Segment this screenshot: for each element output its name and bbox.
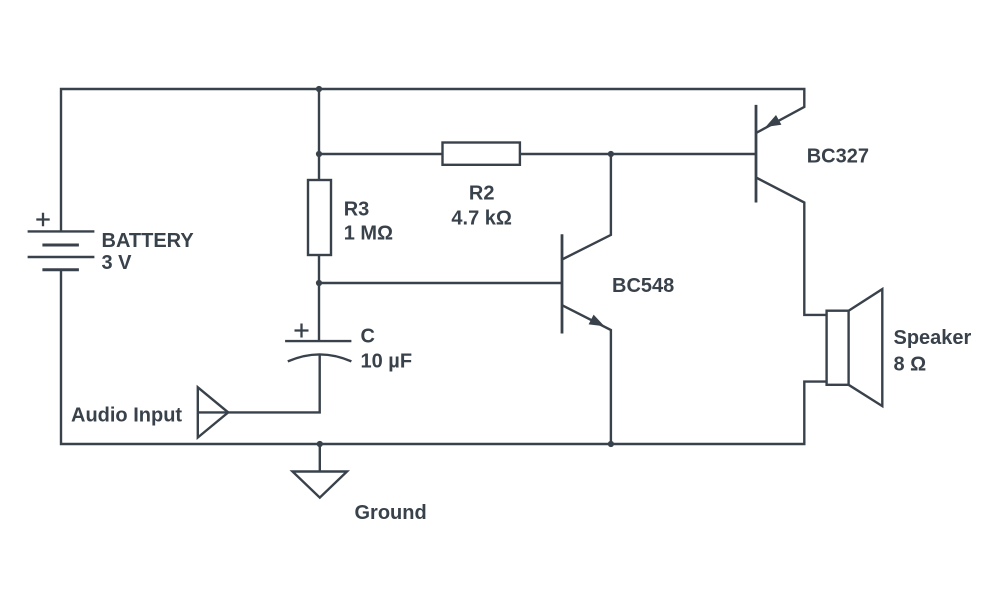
svg-text:4.7 kΩ: 4.7 kΩ [451, 208, 512, 230]
svg-text:Audio Input: Audio Input [71, 405, 182, 427]
svg-text:Speaker: Speaker [894, 327, 972, 349]
svg-text:3 V: 3 V [102, 252, 133, 274]
svg-text:BATTERY: BATTERY [102, 230, 195, 252]
svg-text:1 MΩ: 1 MΩ [344, 223, 393, 245]
svg-text:C: C [361, 326, 375, 348]
svg-text:R2: R2 [469, 183, 495, 205]
svg-text:BC548: BC548 [612, 275, 674, 297]
svg-text:R3: R3 [344, 199, 370, 221]
svg-text:BC327: BC327 [807, 146, 869, 168]
svg-text:10 µF: 10 µF [361, 351, 413, 373]
svg-text:Ground: Ground [355, 502, 427, 524]
svg-text:8 Ω: 8 Ω [894, 354, 927, 376]
